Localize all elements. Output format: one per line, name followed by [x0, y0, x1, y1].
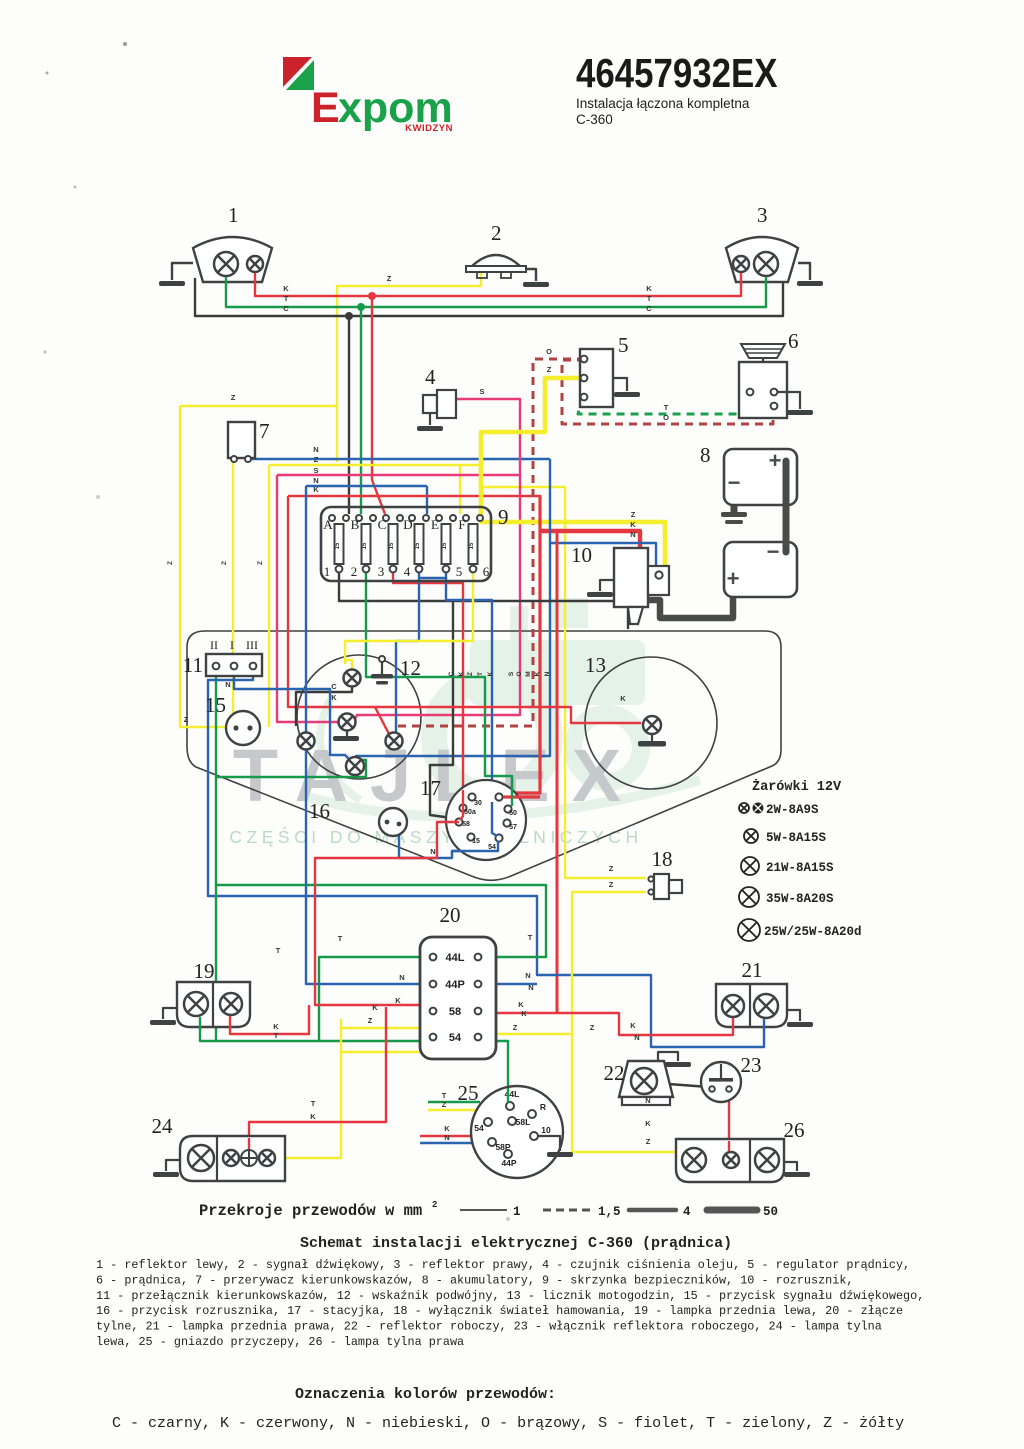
svg-text:N: N [313, 445, 318, 454]
svg-text:50: 50 [763, 1205, 778, 1219]
svg-text:Z: Z [257, 561, 264, 565]
svg-text:8: 8 [700, 443, 711, 467]
svg-text:15: 15 [389, 542, 395, 549]
svg-text:Z: Z [547, 365, 552, 374]
svg-text:Instalacja łączona kompletna: Instalacja łączona kompletna [576, 96, 750, 111]
svg-text:−: − [767, 539, 780, 564]
svg-text:Schemat instalacji elektryczne: Schemat instalacji elektrycznej C-360 (p… [300, 1235, 732, 1252]
svg-text:+: + [769, 448, 782, 473]
svg-text:57: 57 [509, 824, 517, 831]
svg-text:44L: 44L [446, 952, 465, 964]
svg-text:N: N [430, 847, 435, 856]
svg-text:III: III [246, 638, 258, 652]
svg-text:Oznaczenia kolorów przewodów:: Oznaczenia kolorów przewodów: [295, 1386, 556, 1403]
svg-text:B: B [351, 517, 360, 532]
svg-text:T: T [284, 294, 289, 303]
svg-text:T: T [338, 934, 343, 943]
svg-text:Z: Z [442, 1100, 447, 1109]
svg-text:Z: Z [231, 393, 236, 402]
svg-text:M: M [525, 671, 532, 676]
svg-text:K: K [518, 1000, 524, 1009]
svg-text:C: C [448, 671, 455, 676]
svg-text:K: K [487, 671, 494, 676]
svg-text:Z: Z [609, 880, 614, 889]
svg-text:A: A [323, 517, 333, 532]
svg-text:K: K [645, 1119, 651, 1128]
svg-text:T: T [442, 1091, 447, 1100]
svg-text:46457932EX: 46457932EX [576, 51, 778, 96]
svg-text:I: I [230, 638, 234, 652]
svg-text:19: 19 [194, 959, 215, 983]
svg-text:58: 58 [449, 1006, 461, 1018]
svg-text:16: 16 [309, 799, 330, 823]
svg-text:T: T [528, 933, 533, 942]
svg-text:24: 24 [152, 1114, 174, 1138]
svg-text:K: K [458, 671, 465, 676]
svg-text:25: 25 [458, 1081, 479, 1105]
svg-text:15: 15 [472, 838, 480, 845]
svg-text:K: K [372, 1003, 378, 1012]
svg-text:O: O [546, 347, 552, 356]
svg-text:22: 22 [604, 1061, 625, 1085]
svg-text:K: K [395, 996, 401, 1005]
svg-text:4: 4 [683, 1205, 691, 1219]
svg-text:T: T [274, 1031, 279, 1040]
svg-text:7: 7 [259, 419, 270, 443]
svg-text:58L: 58L [516, 1117, 531, 1127]
svg-text:N: N [313, 476, 318, 485]
svg-text:Z: Z [646, 1137, 651, 1146]
svg-text:3: 3 [378, 564, 385, 579]
svg-text:N: N [525, 971, 530, 980]
svg-text:N: N [528, 983, 533, 992]
svg-text:K: K [273, 1022, 279, 1031]
svg-text:15: 15 [415, 542, 421, 549]
svg-text:+: + [727, 566, 740, 591]
svg-text:3: 3 [757, 203, 768, 227]
svg-text:N: N [645, 1096, 650, 1105]
svg-text:N: N [630, 530, 635, 539]
svg-text:10: 10 [541, 1125, 551, 1135]
svg-text:50a: 50a [464, 809, 476, 816]
svg-text:T: T [664, 403, 669, 412]
svg-text:9: 9 [498, 505, 509, 529]
svg-text:K: K [620, 694, 626, 703]
svg-text:58: 58 [462, 821, 470, 828]
svg-text:6: 6 [483, 564, 490, 579]
svg-text:21: 21 [742, 958, 763, 982]
svg-text:18: 18 [652, 847, 673, 871]
svg-text:12: 12 [400, 656, 421, 680]
svg-text:1: 1 [324, 564, 331, 579]
svg-text:1,5: 1,5 [598, 1205, 621, 1219]
svg-text:D: D [403, 517, 412, 532]
svg-text:50: 50 [509, 810, 517, 817]
svg-text:K: K [646, 284, 652, 293]
svg-text:E: E [311, 84, 340, 132]
svg-text:Z: Z [314, 455, 319, 464]
svg-text:Z: Z [184, 715, 189, 724]
svg-text:54: 54 [474, 1123, 484, 1133]
svg-text:K: K [630, 520, 636, 529]
svg-text:N: N [444, 1133, 449, 1142]
svg-text:25W/25W-8A20d: 25W/25W-8A20d [764, 925, 862, 939]
svg-text:10: 10 [571, 543, 592, 567]
svg-text:1: 1 [228, 203, 239, 227]
svg-text:KWIDZYN: KWIDZYN [405, 123, 453, 134]
svg-text:F: F [458, 517, 465, 532]
svg-text:Żarówki 12V: Żarówki 12V [752, 779, 842, 795]
svg-text:Z: Z [590, 1023, 595, 1032]
svg-text:44P: 44P [445, 979, 465, 991]
svg-text:17: 17 [420, 776, 441, 800]
svg-text:C: C [378, 517, 387, 532]
svg-text:−: − [728, 470, 741, 495]
svg-text:5: 5 [456, 564, 463, 579]
svg-text:K: K [283, 284, 289, 293]
svg-text:II: II [210, 638, 218, 652]
svg-text:15: 15 [205, 693, 226, 717]
svg-text:4: 4 [404, 564, 411, 579]
svg-text:C: C [331, 682, 337, 691]
svg-text:5W-8A15S: 5W-8A15S [766, 831, 827, 845]
svg-text:11: 11 [183, 653, 203, 677]
svg-text:Z: Z [368, 1016, 373, 1025]
svg-text:T: T [311, 1099, 316, 1108]
svg-text:T: T [647, 294, 652, 303]
svg-text:E: E [431, 517, 439, 532]
svg-text:K: K [313, 485, 319, 494]
svg-text:15: 15 [362, 542, 368, 549]
svg-text:1 - reflektor lewy, 2 - sygnał: 1 - reflektor lewy, 2 - sygnał dźwiękowy… [96, 1258, 910, 1272]
svg-text:K: K [310, 1112, 316, 1121]
svg-text:54: 54 [449, 1032, 462, 1044]
svg-text:1: 1 [513, 1205, 521, 1219]
svg-text:Z: Z [467, 672, 474, 676]
svg-text:N: N [399, 973, 404, 982]
svg-text:4: 4 [425, 365, 436, 389]
svg-text:N: N [225, 680, 230, 689]
svg-text:S: S [313, 466, 318, 475]
svg-text:C-360: C-360 [576, 112, 613, 127]
svg-text:Z: Z [221, 561, 228, 565]
svg-text:Z: Z [513, 1023, 518, 1032]
svg-text:C: C [646, 304, 652, 313]
svg-text:11 - przełącznik kierunkowskaz: 11 - przełącznik kierunkowskazów, 12 - w… [96, 1289, 924, 1303]
svg-text:N: N [544, 671, 551, 676]
svg-text:2: 2 [491, 221, 502, 245]
svg-text:2: 2 [351, 564, 358, 579]
svg-text:N: N [634, 1033, 639, 1042]
svg-text:13: 13 [585, 653, 606, 677]
svg-text:21W-8A15S: 21W-8A15S [766, 861, 834, 875]
svg-text:O: O [663, 413, 669, 422]
svg-text:2W-8A9S: 2W-8A9S [766, 803, 819, 817]
svg-text:K: K [521, 1009, 527, 1018]
svg-text:35W-8A20S: 35W-8A20S [766, 892, 834, 906]
svg-text:K: K [534, 671, 541, 676]
svg-text:15: 15 [442, 542, 448, 549]
svg-text:20: 20 [440, 903, 461, 927]
svg-text:Z: Z [167, 561, 174, 565]
svg-text:R: R [540, 1102, 546, 1112]
svg-text:K: K [331, 693, 337, 702]
svg-text:O: O [516, 671, 523, 676]
svg-text:T: T [477, 672, 484, 676]
svg-text:5: 5 [618, 333, 629, 357]
svg-text:T: T [276, 946, 281, 955]
svg-text:30: 30 [474, 800, 482, 807]
svg-text:2: 2 [432, 1200, 437, 1210]
svg-text:6 - prądnica, 7 - przerywacz k: 6 - prądnica, 7 - przerywacz kierunkowsk… [96, 1273, 853, 1287]
svg-text:Przekroje przewodów w mm: Przekroje przewodów w mm [199, 1202, 422, 1220]
svg-text:15: 15 [469, 542, 475, 549]
svg-text:K: K [444, 1124, 450, 1133]
svg-text:K: K [630, 1021, 636, 1030]
svg-text:C: C [283, 304, 289, 313]
svg-text:C - czarny, K - czerwony, N -: C - czarny, K - czerwony, N - niebieski,… [112, 1415, 904, 1432]
svg-text:Z: Z [609, 864, 614, 873]
svg-text:58P: 58P [495, 1142, 510, 1152]
svg-text:15: 15 [335, 542, 341, 549]
svg-text:23: 23 [741, 1053, 762, 1077]
svg-text:Z: Z [387, 274, 392, 283]
svg-text:16 - przycisk rozrusznika, 17: 16 - przycisk rozrusznika, 17 - stacyjka… [96, 1304, 903, 1318]
svg-text:S: S [479, 387, 484, 396]
svg-text:tylne, 21 - lampka przednia pr: tylne, 21 - lampka przednia prawa, 22 - … [96, 1320, 882, 1334]
svg-text:Z: Z [631, 510, 636, 519]
svg-text:S: S [508, 671, 515, 676]
svg-text:26: 26 [784, 1118, 805, 1142]
svg-text:6: 6 [788, 329, 799, 353]
svg-text:lewa, 25 - gniazdo przyczepy,: lewa, 25 - gniazdo przyczepy, 26 - lampa… [96, 1335, 464, 1349]
svg-text:44P: 44P [501, 1158, 516, 1168]
